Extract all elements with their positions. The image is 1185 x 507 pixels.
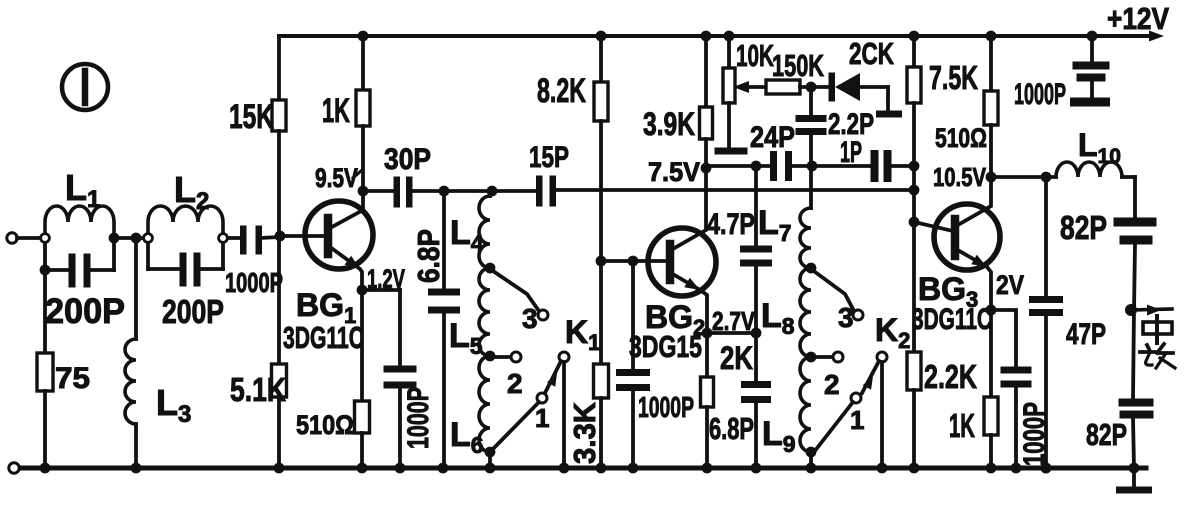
svg-text:6.8P: 6.8P [709, 411, 754, 446]
svg-text:+12V: +12V [1107, 1, 1169, 36]
svg-text:2.7V: 2.7V [712, 306, 756, 336]
svg-text:15K: 15K [229, 98, 274, 136]
svg-text:1K: 1K [949, 407, 975, 444]
svg-text:1K: 1K [322, 92, 350, 130]
svg-text:150K: 150K [772, 48, 824, 83]
svg-text:2V: 2V [996, 270, 1024, 300]
svg-text:1.2V: 1.2V [367, 264, 405, 294]
svg-text:3DG11C: 3DG11C [912, 303, 992, 336]
svg-text:2CK: 2CK [849, 36, 894, 71]
svg-text:3.9K: 3.9K [643, 106, 695, 142]
svg-text:200P: 200P [45, 292, 125, 331]
svg-text:24P: 24P [750, 121, 795, 154]
svg-text:1000P: 1000P [638, 392, 694, 424]
svg-text:200P: 200P [162, 293, 224, 330]
svg-text:5.1K: 5.1K [230, 371, 286, 408]
svg-text:1000P: 1000P [402, 387, 435, 449]
svg-text:3.3K: 3.3K [567, 401, 602, 464]
svg-text:82P: 82P [1086, 417, 1127, 452]
svg-text:30P: 30P [384, 143, 431, 176]
svg-text:4.7P: 4.7P [707, 208, 755, 241]
svg-text:3: 3 [522, 303, 538, 334]
svg-text:15P: 15P [529, 141, 569, 174]
svg-text:7.5V: 7.5V [648, 157, 700, 187]
svg-text:1P: 1P [840, 136, 862, 169]
svg-text:2: 2 [824, 369, 840, 400]
svg-text:7.5K: 7.5K [929, 59, 978, 96]
svg-text:3: 3 [838, 302, 854, 333]
svg-text:6.8P: 6.8P [411, 229, 446, 283]
svg-text:47P: 47P [1066, 318, 1106, 351]
svg-text:1: 1 [535, 403, 549, 433]
svg-text:10.5V: 10.5V [933, 162, 987, 192]
svg-text:510Ω: 510Ω [935, 123, 987, 153]
svg-text:2K: 2K [720, 340, 753, 376]
svg-text:2.2K: 2.2K [924, 358, 977, 395]
svg-text:2: 2 [507, 368, 523, 399]
svg-text:1000P: 1000P [1018, 402, 1051, 466]
svg-text:82P: 82P [1060, 209, 1107, 246]
svg-text:510Ω: 510Ω [296, 410, 354, 440]
svg-text:1000P: 1000P [225, 267, 283, 298]
svg-text:8.2K: 8.2K [537, 72, 586, 110]
svg-text:75: 75 [55, 362, 90, 395]
svg-text:10K: 10K [736, 38, 774, 73]
svg-text:1000P: 1000P [1014, 78, 1066, 111]
svg-text:1: 1 [850, 405, 864, 435]
